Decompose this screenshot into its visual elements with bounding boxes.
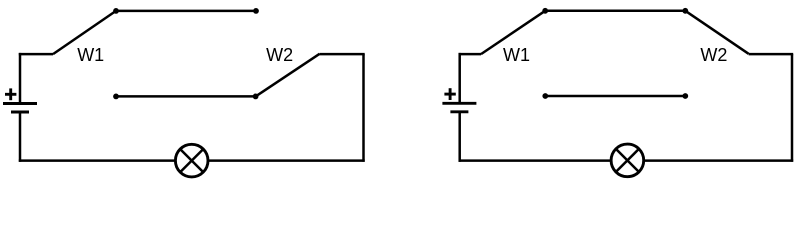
lamp L1 bbox=[175, 144, 208, 177]
battery B2 plus sign bbox=[444, 88, 455, 100]
node: top traveler right terminal bbox=[253, 8, 259, 14]
battery B1 negative plate bbox=[11, 111, 29, 114]
battery B1 positive plate bbox=[3, 102, 37, 105]
wire: left vertical above battery bbox=[19, 53, 22, 104]
node: top traveler left terminal bbox=[113, 8, 119, 14]
wire: top-left stub to switch W1 bbox=[19, 53, 53, 56]
svg-text:W1: W1 bbox=[77, 45, 104, 65]
switch W2 lever (thrown up) bbox=[685, 11, 748, 54]
switch W1 lever (thrown up) bbox=[53, 11, 116, 54]
label W2 bbox=[700, 45, 727, 65]
switch W2 lever (thrown down to middle) bbox=[256, 54, 320, 97]
svg-text:W2: W2 bbox=[700, 45, 727, 65]
wire: top-left stub to switch W1 bbox=[459, 53, 482, 56]
wire: right vertical bbox=[362, 54, 365, 162]
node: middle traveler right terminal bbox=[253, 94, 259, 100]
label W2 bbox=[266, 45, 293, 65]
svg-text:W2: W2 bbox=[266, 45, 293, 65]
wire: top traveler bbox=[545, 10, 685, 13]
label W1 bbox=[77, 45, 104, 65]
label W1 bbox=[503, 45, 530, 65]
node: middle traveler left terminal bbox=[542, 93, 548, 99]
wire: left vertical below battery bbox=[458, 112, 461, 162]
battery B1 plus sign bbox=[5, 88, 16, 100]
wire: middle traveler bbox=[545, 95, 685, 98]
wire: top traveler bbox=[116, 10, 256, 13]
node: middle traveler right terminal bbox=[682, 93, 688, 99]
wire: left vertical below battery bbox=[19, 112, 22, 162]
battery B2 positive plate bbox=[442, 102, 476, 105]
wire: middle traveler bbox=[116, 95, 256, 98]
node: top traveler left terminal bbox=[542, 8, 548, 14]
wire: right vertical bbox=[791, 54, 794, 162]
wire: left vertical above battery bbox=[458, 53, 461, 103]
wire: bottom return bbox=[19, 159, 365, 162]
switch W1 lever (thrown up) bbox=[481, 11, 545, 54]
node: middle traveler left terminal bbox=[113, 94, 119, 100]
wire: bottom return bbox=[459, 159, 794, 162]
svg-text:W1: W1 bbox=[503, 45, 530, 65]
wire: top-right stub from switch W2 bbox=[749, 53, 794, 56]
lamp L2 bbox=[611, 144, 644, 177]
battery B2 negative plate bbox=[450, 110, 468, 113]
wire: top-right stub from switch W2 bbox=[320, 53, 365, 56]
node: top traveler right terminal bbox=[682, 8, 688, 14]
